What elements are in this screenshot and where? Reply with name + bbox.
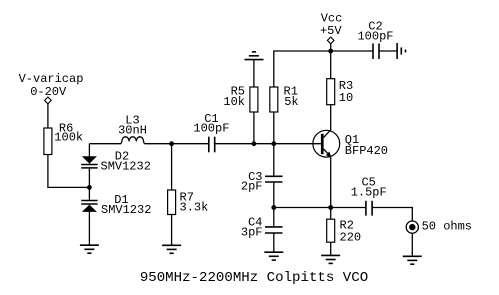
capacitor C1	[209, 137, 215, 153]
wire C3 from base node	[273, 144, 275, 177]
wire R3 to collector	[330, 105, 332, 128]
resistor R2	[327, 219, 335, 242]
ground (C2, sideways)	[397, 43, 405, 59]
svg-text:3pF: 3pF	[241, 225, 263, 239]
wire Vcc node down to R3	[330, 51, 332, 79]
svg-text:3.3k: 3.3k	[180, 200, 209, 214]
wire R5 to inverted ground	[253, 60, 255, 87]
wire D1 to ground	[88, 212, 90, 245]
svg-text:100pF: 100pF	[357, 29, 393, 43]
svg-text:10: 10	[339, 91, 353, 105]
svg-text:10k: 10k	[223, 95, 245, 109]
wire midpoint to D1	[88, 187, 90, 200]
ground (R7)	[162, 245, 181, 253]
svg-text:220: 220	[340, 230, 362, 244]
svg-text:SMV1232: SMV1232	[101, 203, 151, 217]
wire C2 to sideways ground	[379, 50, 397, 52]
transistor Q1	[313, 128, 340, 158]
node emitter junction	[328, 205, 333, 210]
ground (D1)	[80, 245, 99, 253]
svg-text:100pF: 100pF	[193, 121, 229, 135]
wire R6 to varactor midpoint	[48, 155, 90, 188]
svg-text:BFP420: BFP420	[345, 144, 388, 158]
varactor diode D2	[81, 156, 97, 168]
ground (C4)	[264, 252, 283, 260]
wire C5 to output terminal	[372, 208, 412, 222]
wire main line corner down to D2	[88, 144, 90, 157]
terminal 50 ohms output connector	[406, 221, 418, 233]
svg-text:30nH: 30nH	[118, 124, 147, 138]
wire R7 node down to R7	[171, 144, 173, 190]
capacitor C5	[366, 201, 372, 216]
node R1/C3 junction	[271, 141, 276, 146]
wire R1 node up to R1	[273, 112, 275, 144]
node R7 junction	[169, 141, 174, 146]
capacitor C2	[373, 44, 379, 60]
svg-text:+5V: +5V	[320, 24, 342, 38]
wire R2 to ground	[330, 242, 332, 255]
wire C4 node to emitter node	[274, 207, 331, 209]
varactor diode D1	[81, 201, 97, 212]
resistor R7	[168, 190, 176, 215]
wire L3 to R7 node	[144, 143, 208, 145]
svg-text:100k: 100k	[54, 130, 83, 144]
wire emitter node to C5	[331, 207, 366, 209]
terminal Vcc	[327, 37, 334, 44]
wire emitter node down to R2	[330, 208, 332, 220]
node Vcc rail junction	[328, 49, 333, 54]
wire D2 to midpoint	[88, 168, 90, 188]
ground (R2)	[321, 255, 340, 263]
wire C1 to base	[215, 143, 321, 145]
resistor R6	[44, 128, 52, 155]
resistor R5	[250, 87, 258, 112]
capacitor C3	[265, 176, 283, 182]
wire R7 to ground	[171, 215, 173, 246]
node varactor midpoint	[87, 185, 92, 190]
svg-text:1.5pF: 1.5pF	[351, 185, 387, 199]
power rail symbol (inverted ground) above R5	[245, 52, 264, 60]
resistor R1	[270, 87, 278, 112]
wire emitter down to output node	[330, 157, 332, 207]
capacitor C4	[265, 227, 283, 233]
wire R5 node up to R5	[253, 112, 255, 144]
wire output terminal to ground	[411, 233, 413, 256]
wire C4 node down to C4	[273, 208, 275, 227]
ground (output)	[403, 256, 422, 264]
inductor L3	[121, 137, 144, 144]
svg-text:SMV1232: SMV1232	[101, 160, 151, 174]
svg-text:5k: 5k	[284, 95, 298, 109]
resistor R3	[327, 79, 335, 105]
node R5 junction	[252, 141, 257, 146]
svg-text:0-20V: 0-20V	[30, 85, 67, 99]
svg-text:V-varicap: V-varicap	[19, 72, 84, 86]
wire C4 to ground	[273, 233, 275, 252]
wire R1 up and right along Vcc rail	[274, 51, 331, 87]
wire main line D2 corner to L3	[89, 143, 121, 145]
wire rail to C2	[331, 50, 373, 52]
wire varicap terminal to R6	[47, 104, 49, 128]
svg-text:50 ohms: 50 ohms	[422, 219, 472, 233]
node C3/C4 junction	[271, 205, 276, 210]
svg-text:2pF: 2pF	[241, 180, 263, 194]
terminal V-varicap	[45, 97, 52, 104]
svg-text:950MHz-2200MHz Colpitts VCO: 950MHz-2200MHz Colpitts VCO	[140, 270, 368, 286]
wire Vcc terminal to rail	[330, 44, 332, 51]
wire C3 to C4 node	[273, 182, 275, 208]
